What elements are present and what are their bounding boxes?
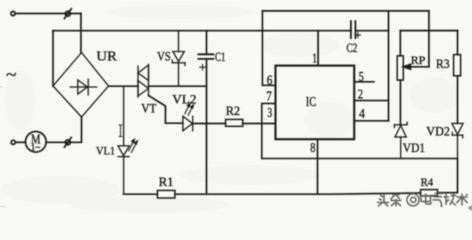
svg-text:4: 4 xyxy=(359,107,365,122)
wire VT right to VS/C1 node xyxy=(149,85,207,87)
IC U1 box xyxy=(276,66,355,140)
wire pin 2 xyxy=(355,100,389,102)
plus sign C2 xyxy=(355,33,360,38)
wire R2 to IC pin 3 xyxy=(243,123,276,125)
potentiometer RP xyxy=(397,56,403,80)
svg-text:IC: IC xyxy=(306,94,316,109)
wire pin 5 stub xyxy=(355,81,375,83)
wire bottom rail xyxy=(262,158,458,160)
wire R3 to VD2 xyxy=(457,76,459,124)
capacitor C2 xyxy=(351,21,356,38)
RP wiper arrow xyxy=(403,64,429,69)
watermark arrow xyxy=(468,205,472,211)
svg-text:VD1: VD1 xyxy=(403,140,425,155)
wire RP bottom to VD1 xyxy=(399,80,401,125)
connector X2 (circle with slash) xyxy=(64,137,71,147)
svg-text:RP: RP xyxy=(411,53,426,67)
wire pin 7 to bottom rail xyxy=(262,103,276,158)
svg-text:2: 2 xyxy=(358,87,363,102)
wire motor to terminal xyxy=(15,141,25,143)
resistor R1 xyxy=(157,190,175,198)
resistor R4 xyxy=(421,190,438,196)
wire pin 1 xyxy=(317,31,319,66)
wire feeder to R3 top xyxy=(457,31,459,55)
wire bridge bottom to motor xyxy=(46,117,81,142)
svg-text:R2: R2 xyxy=(226,103,240,118)
svg-text:1: 1 xyxy=(312,51,317,66)
zener diode VS xyxy=(172,31,185,86)
watermark 头条@电气技术 xyxy=(377,194,468,207)
LED VL2 arrows xyxy=(185,103,194,115)
svg-text:~: ~ xyxy=(6,65,17,85)
svg-text:R1: R1 xyxy=(159,174,174,189)
svg-text:VL1: VL1 xyxy=(96,144,115,158)
svg-text:R3: R3 xyxy=(436,56,450,71)
svg-text:VD2: VD2 xyxy=(426,123,450,138)
svg-text:VS: VS xyxy=(157,48,171,63)
svg-text:VT: VT xyxy=(141,100,156,115)
wire VD2 line down to R4 xyxy=(438,159,458,193)
svg-text:C2: C2 xyxy=(347,41,358,55)
wire pin 4 xyxy=(355,120,389,122)
capacitor C1 xyxy=(198,54,213,59)
terminal T2 (bottom-left input) xyxy=(11,140,15,144)
wire feeder to RP top xyxy=(399,31,401,56)
wire pin 6 from top line xyxy=(262,11,275,85)
triac VT xyxy=(138,65,149,98)
svg-text:6: 6 xyxy=(267,73,273,88)
zener diode VD2 xyxy=(452,123,463,158)
svg-text:R4: R4 xyxy=(421,175,434,189)
svg-text:C1: C1 xyxy=(215,50,226,64)
LED VL2 xyxy=(183,116,193,131)
motor M xyxy=(26,132,47,153)
wire RP/R3 feeder xyxy=(400,30,457,32)
text cursor artifact xyxy=(119,125,123,137)
zener diode VD1 xyxy=(394,122,407,158)
svg-text:8: 8 xyxy=(310,141,315,156)
connector X1 (circle with slash) xyxy=(64,9,71,19)
wire C1 top xyxy=(206,31,208,55)
wire top line down to RP feeder xyxy=(428,11,430,67)
wire C1 down to bottom wire xyxy=(206,59,208,194)
resistor R2 xyxy=(226,119,243,126)
terminal T1 (top-left input) xyxy=(11,11,15,15)
svg-text:5: 5 xyxy=(359,70,364,85)
wire top line (upper) xyxy=(262,10,429,12)
rectifier bridge UR xyxy=(53,53,109,118)
wire C2 right xyxy=(355,30,388,32)
wire R1 to R4 xyxy=(175,193,421,194)
svg-text:7: 7 xyxy=(266,90,272,105)
wire node vertical x388 (pins 2,4 to top line) xyxy=(388,11,390,121)
LED VL1 xyxy=(118,86,129,194)
wire bridge right to VT xyxy=(109,85,139,87)
wire bridge left up to top rail xyxy=(52,31,54,86)
wire VL2 to R2 xyxy=(193,123,226,125)
wire input down to bridge xyxy=(80,14,82,53)
LED VL1 arrows xyxy=(129,139,138,152)
svg-text:VL2: VL2 xyxy=(172,92,196,107)
wire top input xyxy=(15,13,81,15)
resistor R3 xyxy=(454,55,461,76)
svg-text:3: 3 xyxy=(267,106,272,121)
svg-text:UR: UR xyxy=(96,49,117,64)
wire pin 8 down xyxy=(317,139,319,194)
wire bottom (VL1/R1 run) xyxy=(124,193,158,195)
plus sign C1 xyxy=(200,65,205,70)
svg-text:1~: 1~ xyxy=(31,143,41,153)
wire top rail xyxy=(53,30,351,32)
wire VT gate xyxy=(149,96,183,124)
